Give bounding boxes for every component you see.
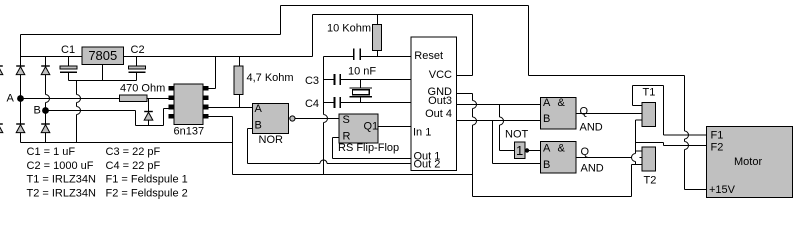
svg-text:470 Ohm: 470 Ohm [120, 83, 165, 95]
svg-text:B: B [543, 113, 550, 125]
svg-text:4,7 Kohm: 4,7 Kohm [247, 72, 294, 84]
svg-text:RS Flip-Flop: RS Flip-Flop [338, 142, 399, 154]
svg-text:T1: T1 [643, 87, 656, 99]
svg-text:10 nF: 10 nF [348, 66, 376, 78]
svg-text:C1 = 1 uF: C1 = 1 uF [27, 146, 76, 158]
svg-text:A: A [7, 93, 15, 105]
svg-text:1: 1 [516, 143, 523, 158]
svg-text:NOR: NOR [259, 134, 284, 146]
svg-text:C4: C4 [305, 98, 319, 110]
svg-text:C1: C1 [61, 44, 75, 56]
svg-text:A: A [543, 97, 551, 109]
svg-text:T2: T2 [644, 175, 657, 187]
svg-text:VCC: VCC [429, 69, 452, 81]
svg-text:Reset: Reset [414, 50, 443, 62]
svg-text:Out 2: Out 2 [414, 159, 441, 171]
svg-text:6n137: 6n137 [174, 126, 205, 138]
svg-text:&: & [558, 97, 566, 109]
svg-text:C4 = 22 pF: C4 = 22 pF [106, 160, 161, 172]
svg-text:In 1: In 1 [413, 127, 431, 139]
svg-text:C2 = 1000 uF: C2 = 1000 uF [27, 160, 94, 172]
svg-text:C3: C3 [305, 75, 319, 87]
svg-text:F2: F2 [711, 142, 724, 154]
svg-text:Out3: Out3 [428, 95, 452, 107]
svg-text:F2 = Feldspule 2: F2 = Feldspule 2 [106, 188, 188, 200]
svg-text:7805: 7805 [88, 48, 117, 63]
svg-text:Q: Q [581, 146, 590, 158]
svg-text:NOT: NOT [505, 129, 529, 141]
svg-text:B: B [34, 105, 41, 117]
svg-text:T1 = IRLZ34N: T1 = IRLZ34N [27, 174, 96, 186]
svg-text:A: A [543, 143, 551, 155]
svg-text:F1 = Feldspule 1: F1 = Feldspule 1 [106, 174, 188, 186]
svg-text:+15V: +15V [709, 184, 736, 196]
svg-text:S: S [343, 114, 350, 126]
svg-text:AND: AND [580, 122, 603, 134]
svg-text:Q: Q [580, 106, 589, 118]
svg-text:F1: F1 [711, 130, 724, 142]
svg-text:C3 = 22 pF: C3 = 22 pF [106, 146, 161, 158]
svg-text:B: B [543, 159, 550, 171]
svg-text:Out 4: Out 4 [425, 108, 452, 120]
svg-text:Q1: Q1 [364, 121, 379, 133]
svg-text:C2: C2 [131, 44, 145, 56]
svg-text:AND: AND [581, 163, 604, 175]
svg-text:T2 = IRLZ34N: T2 = IRLZ34N [27, 188, 96, 200]
svg-text:A: A [255, 103, 263, 115]
svg-text:&: & [558, 143, 566, 155]
svg-text:R: R [343, 131, 351, 143]
svg-text:B: B [255, 120, 262, 132]
svg-text:Motor: Motor [734, 156, 762, 168]
svg-text:10 Kohm: 10 Kohm [327, 23, 371, 35]
